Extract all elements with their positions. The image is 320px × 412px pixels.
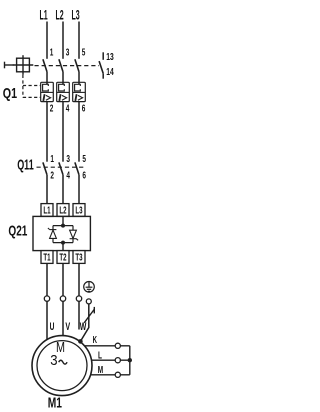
wire phase2 mid: [62, 102, 64, 162]
breaker Q1 contact pole 2: [59, 59, 63, 71]
wire T2 down: [62, 263, 64, 296]
svg-text:1: 1: [50, 154, 54, 165]
motor M1 outer circle: [32, 336, 92, 396]
svg-text:5: 5: [82, 47, 86, 58]
breaker Q1 aux contact 13-14: [99, 52, 103, 78]
connector circle L: [115, 358, 120, 363]
svg-text:L3: L3: [75, 206, 83, 217]
thermistor wire K: [85, 345, 130, 347]
trip unit box pole 1: [41, 82, 54, 101]
contactor Q11 contact pole 2: [59, 162, 63, 174]
soft starter Q21 terminal L3: [73, 204, 85, 217]
svg-text:5: 5: [82, 154, 86, 165]
svg-text:T1: T1: [43, 253, 51, 264]
svg-text:6: 6: [82, 171, 86, 182]
svg-text:4: 4: [66, 104, 70, 115]
wire V to motor: [62, 301, 64, 335]
PE terminal circle: [86, 299, 91, 304]
soft starter Q21 terminal L1: [41, 204, 53, 217]
svg-text:1: 1: [50, 47, 54, 58]
svg-text:14: 14: [106, 67, 114, 78]
svg-text:M: M: [98, 365, 103, 376]
wire pole3 blade to trip box: [78, 72, 80, 85]
contactor Q11 contact pole 1: [43, 162, 47, 174]
svg-text:3: 3: [66, 47, 70, 58]
svg-text:3: 3: [66, 154, 70, 165]
junction bottom: [61, 241, 65, 245]
svg-text:V: V: [65, 321, 70, 333]
svg-text:4: 4: [66, 171, 70, 182]
svg-text:Q1: Q1: [3, 86, 17, 102]
wire phase2 to Q21: [62, 175, 64, 204]
PE sliding link tick: [93, 307, 95, 314]
thyristor loop: [53, 226, 73, 243]
svg-text:L1: L1: [43, 206, 51, 217]
wire phase1 to Q21: [46, 175, 48, 204]
PE sliding link stroke: [84, 309, 94, 323]
thermistor wire M: [91, 374, 130, 376]
bus junction dot: [128, 358, 132, 362]
wire center bottom inside Q21: [62, 243, 64, 251]
trip linkage dashed vertical: [22, 75, 24, 98]
soft starter Q21 terminal L2: [57, 204, 69, 217]
trip linkage dashed branch upper: [23, 85, 41, 87]
trip unit box pole 2: [57, 82, 70, 101]
wire T1 down: [46, 263, 48, 296]
svg-text:T2: T2: [59, 253, 67, 264]
svg-text:L2: L2: [59, 206, 67, 217]
wire L1 top: [46, 22, 48, 59]
svg-text:3: 3: [50, 352, 57, 369]
soft starter Q21 terminal T3: [73, 251, 85, 264]
wire phase3 mid: [78, 102, 80, 162]
junction top: [61, 224, 65, 228]
svg-text:L: L: [98, 350, 102, 361]
terminal circle U: [44, 296, 49, 301]
thyristor right: [70, 230, 79, 240]
svg-text:6: 6: [82, 104, 86, 115]
trip unit box pole 3: [73, 82, 86, 101]
svg-text:M1: M1: [48, 396, 62, 412]
thermistor wire L: [92, 359, 130, 361]
wire phase3 to Q21: [78, 175, 80, 204]
svg-text:L1: L1: [40, 6, 48, 22]
connector circle M: [115, 372, 120, 377]
connector circle K: [115, 343, 120, 348]
breaker Q1 manual actuator: [5, 55, 34, 75]
PE junction dot: [78, 339, 83, 344]
wire U to motor: [46, 301, 48, 340]
terminal circle W: [76, 296, 81, 301]
svg-text:L2: L2: [56, 6, 64, 22]
svg-text:K: K: [93, 335, 98, 346]
svg-text:Q11: Q11: [17, 157, 34, 173]
soft starter Q21 body: [33, 216, 90, 250]
svg-text:2: 2: [50, 171, 54, 182]
wire W to motor: [78, 301, 80, 329]
trip unit I> label pole 3: [75, 94, 82, 101]
wire L2 top: [62, 22, 64, 59]
svg-text:T3: T3: [75, 253, 83, 264]
contactor Q11 linkage dashed: [37, 166, 86, 168]
svg-text:Q21: Q21: [8, 223, 27, 239]
wire center top inside Q21: [62, 216, 64, 225]
PE earth symbol: [84, 282, 95, 293]
breaker Q1 contact pole 3: [75, 59, 79, 71]
trip linkage dashed branch lower: [23, 96, 41, 98]
svg-text:L3: L3: [72, 6, 80, 22]
thyristor left: [48, 228, 57, 238]
motor M1 inner circle: [37, 341, 87, 391]
svg-text:2: 2: [50, 104, 54, 115]
breaker Q1 contact pole 1: [43, 59, 47, 71]
terminal circle V: [60, 296, 65, 301]
trip unit I> label pole 2: [59, 94, 66, 101]
wire T3 down: [78, 263, 80, 296]
mechanical linkage dashed: [35, 65, 100, 67]
wire pole2 blade to trip box: [62, 72, 64, 85]
soft starter Q21 terminal T1: [41, 251, 53, 264]
wire L3 top: [78, 22, 80, 59]
PE lead wire: [80, 304, 88, 342]
contactor Q11 contact pole 3: [75, 162, 79, 174]
svg-text:13: 13: [106, 52, 114, 63]
trip unit I> label pole 1: [43, 94, 50, 101]
wire phase1 mid: [46, 102, 48, 162]
right bus wire: [129, 346, 131, 375]
wire pole1 blade to trip box: [46, 72, 48, 85]
svg-text:U: U: [50, 321, 55, 333]
soft starter Q21 terminal T2: [57, 251, 69, 264]
